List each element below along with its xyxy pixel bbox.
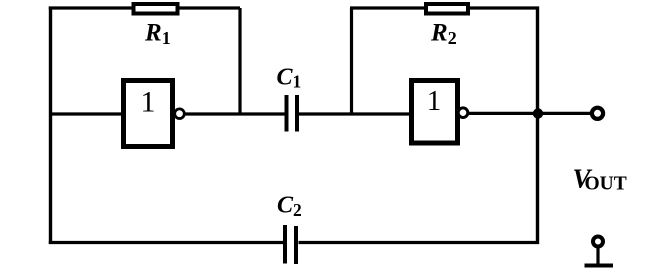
ground terminal (open circle) bbox=[593, 237, 603, 247]
terminal Vout (open circle) bbox=[592, 108, 603, 119]
svg-text:OUT: OUT bbox=[585, 174, 627, 195]
wire top-left horizontal through R1 bbox=[49, 6, 240, 9]
wire bottom loop right segment from C2 bbox=[299, 241, 540, 244]
capacitor C2 bbox=[285, 225, 296, 264]
capacitor C1 bbox=[287, 95, 298, 132]
svg-text:C2: C2 bbox=[277, 193, 302, 221]
wire top-right horizontal through R2 bbox=[350, 6, 539, 9]
resistor R2 bbox=[426, 4, 468, 14]
wire vertical R2 left down to U2 input node bbox=[350, 8, 353, 114]
wire U2 output to terminal bbox=[469, 112, 592, 115]
wire left vertical (input node of U1 / feedback) bbox=[49, 7, 52, 245]
inverter U2 box bbox=[412, 81, 458, 144]
svg-text:R2: R2 bbox=[430, 20, 457, 49]
wire right vertical from R2 down through output node to bottom loop bbox=[536, 7, 539, 245]
wire U1 input bbox=[50, 112, 122, 115]
svg-text:R1: R1 bbox=[144, 20, 171, 49]
junction node (output) bbox=[533, 108, 543, 118]
ground bar bbox=[585, 264, 614, 268]
bubble U1 output bbox=[175, 109, 185, 119]
wire C1 to U2 input bbox=[299, 112, 412, 115]
ground stem bbox=[596, 247, 599, 265]
svg-text:C1: C1 bbox=[277, 65, 302, 92]
inverter U1 box bbox=[124, 81, 173, 147]
wire U1 output to C1 bbox=[185, 112, 285, 115]
wire vertical from R1 right down to U1 output bbox=[238, 8, 241, 114]
bubble U2 output bbox=[458, 108, 468, 118]
wire bottom loop left segment to C2 bbox=[49, 241, 285, 244]
svg-text:1: 1 bbox=[141, 86, 156, 119]
resistor R1 bbox=[134, 4, 178, 14]
svg-text:1: 1 bbox=[427, 85, 442, 117]
